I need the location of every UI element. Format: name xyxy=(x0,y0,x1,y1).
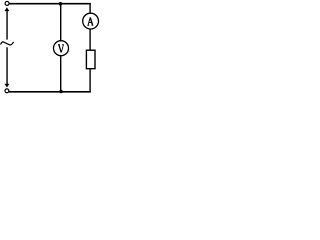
resistor R xyxy=(86,50,95,68)
node junction dot bottom xyxy=(59,90,63,94)
AC source tilde xyxy=(1,42,14,45)
wire left vertical upper xyxy=(6,10,8,39)
voltmeter U1 circle xyxy=(54,41,69,56)
wire right vertical upper xyxy=(89,4,91,14)
wire voltmeter branch lower xyxy=(60,55,62,91)
terminal circle top-left xyxy=(5,1,9,5)
node junction dot top xyxy=(59,2,63,6)
wire ammeter to resistor xyxy=(89,29,91,51)
ammeter U2 circle xyxy=(83,13,99,29)
wire left vertical lower xyxy=(6,47,8,84)
terminal circle bottom-left xyxy=(5,89,9,93)
wire resistor to bottom xyxy=(89,69,91,92)
ammeter letter A xyxy=(87,17,93,25)
arrow up (left branch, top) xyxy=(5,7,10,11)
wire voltmeter branch upper xyxy=(60,4,62,41)
voltmeter letter V xyxy=(58,45,64,53)
arrow down (left branch, bottom) xyxy=(5,84,10,88)
wire bottom horizontal xyxy=(9,91,91,93)
wire top horizontal xyxy=(9,3,90,5)
